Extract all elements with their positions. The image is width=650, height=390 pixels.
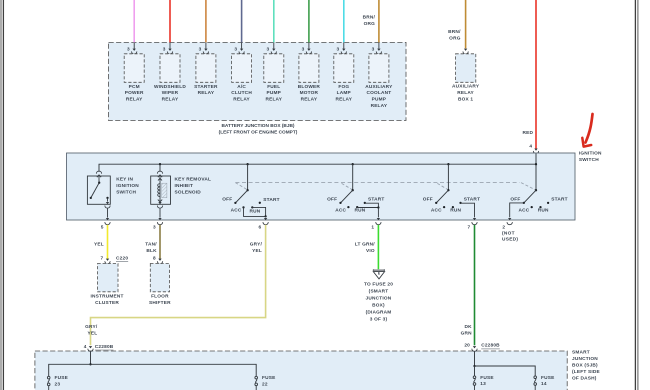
svg-text:MOTOR: MOTOR: [300, 90, 319, 96]
svg-text:LT GRN/: LT GRN/: [355, 241, 376, 247]
svg-text:BRN/: BRN/: [363, 15, 376, 21]
svg-text:JUNCTION: JUNCTION: [572, 356, 598, 362]
svg-text:KEY IN: KEY IN: [116, 177, 133, 183]
battery junction box (BJB) enclosure: [109, 42, 407, 120]
svg-text:RELAY: RELAY: [265, 97, 282, 103]
svg-text:GRN: GRN: [461, 331, 473, 337]
connector below key-in switch: [105, 206, 110, 218]
svg-text:SWITCH: SWITCH: [579, 157, 599, 163]
wire: wafer 2 START to output elbow: [357, 203, 378, 207]
contact ACC, wafer 1: [231, 206, 245, 213]
svg-text:ORG: ORG: [364, 21, 376, 27]
connector pin 8 at floor shifter: [153, 255, 163, 264]
wire: LT GRN/VIO from ignition pin 1: [377, 225, 379, 269]
svg-text:WIPER: WIPER: [162, 90, 179, 96]
svg-text:3: 3: [337, 46, 340, 52]
ignition switch wafer 4: feed line and rotor: [524, 189, 537, 203]
svg-text:PUMP: PUMP: [267, 90, 282, 96]
svg-text:JUNCTION: JUNCTION: [366, 296, 392, 302]
svg-text:3: 3: [153, 225, 156, 231]
svg-text:3: 3: [302, 46, 305, 52]
svg-text:CLUSTER: CLUSTER: [95, 300, 119, 306]
svg-text:IGNITION: IGNITION: [579, 150, 602, 156]
svg-text:22: 22: [262, 382, 268, 388]
svg-text:CLUTCH: CLUTCH: [231, 90, 252, 96]
svg-text:C2280B: C2280B: [481, 343, 500, 349]
wire: DK GRN from ignition pin 7 to SJB pin 20: [474, 225, 476, 345]
connector: ignition pin 7: [467, 218, 477, 231]
connector below solenoid: [157, 202, 162, 218]
connector: ignition pin 6: [259, 216, 269, 230]
svg-text:3: 3: [163, 46, 166, 52]
svg-text:FUSE: FUSE: [480, 375, 493, 381]
svg-text:START: START: [368, 196, 384, 202]
svg-text:RUN: RUN: [355, 208, 366, 214]
svg-text:ORG: ORG: [449, 35, 461, 41]
svg-text:START: START: [464, 196, 480, 202]
relay: fuel pump relay K5: [264, 54, 284, 103]
connector: ignition pin 2 (not used): [502, 218, 518, 243]
svg-text:RELAY: RELAY: [371, 103, 388, 109]
contact OFF, wafer 2: [327, 197, 342, 204]
connector: ignition pin 5: [101, 218, 110, 231]
wire: wafer 3 START to output elbow: [461, 203, 475, 217]
svg-text:BOX (SJB): BOX (SJB): [572, 363, 598, 369]
page border right (double rule): [635, 0, 638, 390]
svg-text:RELAY: RELAY: [301, 97, 318, 103]
svg-text:YEL: YEL: [88, 331, 98, 337]
svg-text:OF DASH): OF DASH): [572, 375, 597, 381]
connector at auxiliary relay box 1: [463, 49, 468, 54]
svg-text:BATTERY JUNCTION BOX (BJB): BATTERY JUNCTION BOX (BJB): [221, 123, 294, 129]
svg-text:(SMART: (SMART: [369, 289, 389, 295]
svg-text:PUMP: PUMP: [372, 97, 387, 103]
junction: SJB left fuse bus tap: [89, 363, 91, 365]
svg-text:AUXILIARY: AUXILIARY: [365, 84, 393, 90]
svg-text:BRN/: BRN/: [448, 29, 461, 35]
connector pin 3 of pcm power relay K1: [127, 42, 137, 54]
relay: windshield wiper relay K2: [154, 54, 186, 103]
svg-text:1: 1: [371, 225, 374, 231]
caption: battery junction box: [219, 123, 298, 136]
caption: smart junction box: [572, 350, 600, 382]
svg-text:14: 14: [541, 381, 547, 387]
wire: wafer 4 OFF contact to pin 2: [510, 203, 524, 218]
contact OFF, wafer 1: [222, 197, 236, 204]
contact RUN, wafer 4: [538, 206, 549, 214]
relay: starter relay K3: [194, 54, 218, 96]
svg-text:USED): USED): [502, 237, 518, 243]
svg-text:YEL: YEL: [252, 248, 262, 254]
contact START, wafer 2: [364, 196, 385, 204]
key removal inhibit solenoid L1: [151, 176, 171, 204]
svg-text:DK: DK: [465, 324, 473, 330]
wire: GRY/YEL from ignition pin 6 to SJB pin 4: [91, 225, 266, 345]
off-page connector triangle E (to fuse 20): [373, 269, 385, 279]
svg-text:13: 13: [480, 381, 486, 387]
contact RUN, wafer 2: [355, 206, 366, 214]
svg-text:RELAY: RELAY: [457, 90, 474, 96]
svg-text:RELAY: RELAY: [126, 97, 143, 103]
svg-text:8: 8: [153, 255, 156, 261]
svg-text:BLOWER: BLOWER: [298, 84, 321, 90]
connector C220 pin 7 at instrument cluster: [101, 255, 129, 264]
connector pin 3 of blower motor relay K6: [302, 42, 312, 54]
contact RUN, wafer 3: [450, 206, 461, 214]
contact START, wafer 3: [459, 196, 480, 204]
label: ignition switch: [579, 150, 602, 163]
contact ACC, wafer 2: [335, 206, 349, 214]
connector C2280B pin 20 (SJB right): [464, 343, 500, 352]
connector C2280B pin 4 (SJB left): [84, 344, 114, 352]
connector at key removal inhibit solenoid (top): [157, 164, 162, 177]
svg-text:4: 4: [84, 344, 87, 350]
connector pin 3 of windshield wiper relay K2: [163, 42, 173, 54]
value label TAN/BLK: [145, 241, 157, 254]
svg-text:INHIBIT: INHIBIT: [175, 183, 194, 189]
svg-text:GRY/: GRY/: [250, 241, 263, 247]
wire: YEL from ignition pin 5 to instrument cluster: [107, 225, 109, 259]
svg-text:STARTER: STARTER: [194, 84, 218, 90]
wire: SJB internal from pin 4 to fuse bus: [90, 352, 92, 365]
svg-text:LAMP: LAMP: [337, 90, 351, 96]
connector: ignition pin 1: [371, 208, 381, 231]
connector: ignition pin 3: [153, 218, 163, 231]
key in ignition switch S1: [87, 176, 110, 204]
svg-text:OFF: OFF: [510, 197, 520, 203]
svg-text:FUSE: FUSE: [262, 375, 275, 381]
svg-text:3: 3: [372, 46, 375, 52]
svg-text:C220: C220: [116, 255, 128, 261]
svg-text:AUXILIARY: AUXILIARY: [452, 84, 480, 90]
label: key in ignition switch: [116, 177, 139, 196]
svg-text:SMART: SMART: [572, 350, 590, 356]
svg-text:5: 5: [101, 225, 104, 231]
svg-text:START: START: [551, 196, 567, 202]
wire: supply feed to auxiliary coolant pump relay K8: [378, 0, 380, 42]
svg-text:START: START: [263, 197, 279, 203]
value label LT GRN/VIO: [355, 241, 376, 254]
connector pin 3 of fog lamp relay K7: [337, 42, 347, 54]
svg-text:FUEL: FUEL: [267, 84, 280, 90]
svg-text:ACC: ACC: [231, 208, 242, 214]
fuse F13: [473, 375, 494, 390]
ignition switch wafer 1: feed line and rotor: [235, 164, 248, 203]
contact OFF, wafer 3: [423, 197, 438, 204]
junction: bus / switch wafer 1: [246, 163, 248, 165]
svg-text:GRY/: GRY/: [85, 324, 98, 330]
value label GRY/YEL (lower): [85, 324, 98, 337]
svg-text:7: 7: [101, 255, 104, 261]
junction: wafer 2 output: [377, 206, 379, 208]
relay: auxiliary coolant pump relay K8: [365, 54, 393, 109]
svg-text:ACC: ACC: [431, 208, 442, 214]
svg-text:FUSE: FUSE: [55, 375, 68, 381]
wire: internal supply bus of ignition switch: [99, 164, 536, 190]
junction: bus / switch wafer 4 (pin 4 feed): [535, 163, 537, 165]
connector pin 3 of starter relay K3: [199, 42, 209, 54]
svg-text:PCM: PCM: [129, 84, 140, 90]
svg-text:ACC: ACC: [335, 208, 346, 214]
svg-text:TO FUSE 20: TO FUSE 20: [364, 282, 393, 288]
relay: pcm power relay K1: [124, 54, 144, 103]
svg-text:(NOT: (NOT: [502, 230, 515, 236]
label: key removal inhibit solenoid: [175, 177, 212, 196]
svg-text:20: 20: [464, 343, 470, 349]
svg-text:3: 3: [199, 46, 202, 52]
contact START, wafer 1: [259, 197, 280, 204]
smart junction box (SJB) enclosure: [35, 351, 567, 390]
wire: SJB left fuse bus: [49, 364, 257, 376]
svg-text:ACC: ACC: [518, 208, 529, 214]
svg-text:6: 6: [259, 225, 262, 231]
junction: bus / key-removal solenoid: [159, 163, 161, 165]
connector pin 3 of A/C clutch relay K4: [234, 42, 244, 54]
junction: bus / switch wafer 2: [352, 163, 354, 165]
wire: ignition pin 4 feed into bus: [535, 153, 537, 164]
contact RUN and ACC-RUN bridge, wafer 1: [244, 206, 266, 216]
fuse F22: [255, 375, 276, 390]
svg-text:3 OF 3): 3 OF 3): [370, 317, 388, 323]
svg-text:(LEFT SIDE: (LEFT SIDE: [572, 369, 600, 375]
floor shifter module: [149, 264, 171, 307]
connector: ignition switch pin 4: [533, 149, 538, 154]
mechanical linkage (dashed) of ignition switch wafers: [235, 183, 535, 190]
wire: RED battery feed to ignition switch pin 4: [535, 0, 537, 149]
value label BRN/ORG on auxiliary relay box 1 feed: [448, 29, 461, 42]
wire: supply feed to fog lamp relay K7: [343, 0, 345, 42]
value label GRY/YEL (upper): [250, 241, 263, 254]
svg-text:RUN: RUN: [538, 208, 549, 214]
svg-text:YEL: YEL: [94, 242, 104, 248]
relay: A/C clutch relay K4: [231, 54, 252, 103]
contact ACC, wafer 3: [431, 206, 445, 214]
page border left (double rule): [1, 0, 3, 390]
contact START, wafer 4: [547, 196, 568, 204]
ignition switch wafer 2: feed line and rotor: [341, 164, 354, 203]
svg-text:OFF: OFF: [222, 197, 232, 203]
wire: supply feed to pcm power relay K1: [133, 0, 135, 42]
svg-text:C2280B: C2280B: [95, 344, 114, 350]
ignition switch enclosure U1: [67, 153, 576, 220]
svg-text:BOX 1: BOX 1: [458, 97, 473, 103]
svg-text:RELAY: RELAY: [335, 97, 352, 103]
svg-text:KEY REMOVAL: KEY REMOVAL: [175, 177, 212, 183]
svg-text:RELAY: RELAY: [233, 97, 250, 103]
svg-text:COOLANT: COOLANT: [366, 90, 391, 96]
svg-text:(DIAGRAM: (DIAGRAM: [366, 310, 392, 316]
svg-text:RED: RED: [523, 130, 534, 136]
svg-text:4: 4: [529, 144, 532, 150]
contact ACC, wafer 4: [518, 206, 532, 214]
svg-text:SOLENOID: SOLENOID: [175, 189, 202, 195]
wire: supply feed to blower motor relay K6: [308, 0, 310, 42]
svg-text:A/C: A/C: [237, 84, 246, 90]
svg-text:FLOOR: FLOOR: [151, 294, 169, 300]
svg-text:3: 3: [234, 46, 237, 52]
svg-text:SHIFTER: SHIFTER: [149, 300, 171, 306]
svg-text:WINDSHIELD: WINDSHIELD: [154, 84, 186, 90]
wire: supply feed to windshield wiper relay K2: [169, 0, 171, 42]
connector at key-in ignition switch (top): [96, 171, 101, 177]
caption: to fuse 20 (smart junction box) (diagram 3 of 3): [364, 282, 393, 323]
svg-text:OFF: OFF: [327, 197, 337, 203]
svg-text:FOG: FOG: [338, 84, 349, 90]
connector pin 3 of auxiliary coolant pump relay K8: [372, 42, 382, 54]
svg-text:RUN: RUN: [250, 208, 261, 214]
wire: SJB right fuse bus: [475, 366, 536, 376]
contact OFF, wafer 4: [510, 197, 525, 204]
svg-text:RUN: RUN: [450, 208, 461, 214]
svg-text:IGNITION: IGNITION: [116, 183, 139, 189]
junction: SJB right fuse bus tap: [473, 365, 475, 367]
svg-text:OFF: OFF: [423, 197, 433, 203]
fuse F14: [534, 375, 555, 390]
wire: supply feed to starter relay K3: [205, 0, 207, 42]
wire: BRN/ORG feed to auxiliary relay box 1: [465, 0, 467, 48]
junction: bus / switch wafer 3: [447, 163, 449, 165]
junction: wafer 1 output: [264, 215, 266, 217]
connector pin 3 of fuel pump relay K5: [267, 42, 277, 54]
wire: TAN/BLK from ignition pin 3 to floor shifter: [159, 225, 161, 259]
relay: fog lamp relay K7: [334, 54, 354, 103]
auxiliary relay box 1: [452, 54, 480, 103]
svg-text:RELAY: RELAY: [198, 90, 215, 96]
wire: supply feed to A/C clutch relay K4: [241, 0, 243, 42]
value label DK GRN: [461, 324, 473, 337]
svg-text:RELAY: RELAY: [162, 97, 179, 103]
svg-text:VIO: VIO: [366, 248, 375, 254]
svg-text:3: 3: [127, 46, 130, 52]
instrument cluster module: [91, 264, 124, 307]
svg-text:(LEFT FRONT OF ENGINE COMPT): (LEFT FRONT OF ENGINE COMPT): [219, 130, 298, 136]
svg-text:2: 2: [502, 225, 505, 231]
annotation arrow (hand drawn, red) pointing to ignition switch: [582, 114, 592, 147]
wire: SJB internal from pin 20 to fuse bus: [474, 352, 476, 366]
fuse F23: [47, 375, 68, 390]
relay: blower motor relay K6: [298, 54, 321, 103]
svg-text:BLK: BLK: [146, 248, 157, 254]
svg-text:POWER: POWER: [125, 90, 144, 96]
svg-text:3: 3: [267, 46, 270, 52]
svg-text:7: 7: [467, 225, 470, 231]
svg-text:INSTRUMENT: INSTRUMENT: [91, 294, 124, 300]
svg-text:FUSE: FUSE: [541, 375, 554, 381]
ignition switch wafer 3: feed line and rotor: [436, 164, 449, 203]
svg-text:23: 23: [55, 382, 61, 388]
wire: supply feed to fuel pump relay K5: [273, 0, 275, 42]
svg-text:BOX): BOX): [372, 303, 385, 309]
svg-text:SWITCH: SWITCH: [116, 189, 136, 195]
svg-text:TAN/: TAN/: [145, 241, 157, 247]
value label BRN/ORG on auxiliary coolant pump relay feed wire: [363, 15, 376, 28]
